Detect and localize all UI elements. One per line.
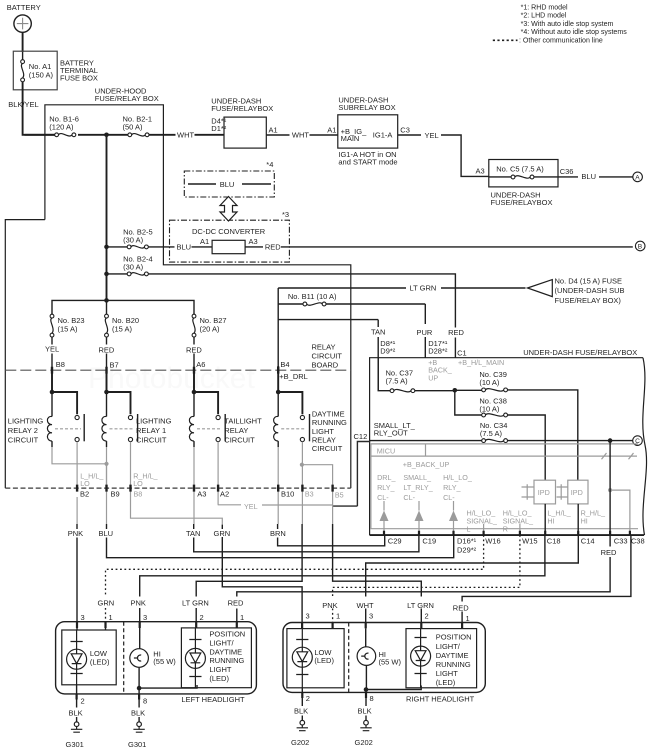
svg-text:2: 2	[425, 612, 429, 621]
svg-text:GRN: GRN	[98, 598, 115, 607]
svg-text:(7.5 A): (7.5 A)	[480, 429, 503, 438]
svg-text:(120 A): (120 A)	[49, 123, 74, 132]
svg-text:C12: C12	[354, 432, 368, 441]
svg-text:DAYTIME: DAYTIME	[312, 409, 345, 418]
svg-text:No. C5 (7.5 A): No. C5 (7.5 A)	[496, 164, 544, 173]
svg-text:TAN: TAN	[371, 328, 385, 337]
svg-text:FUSE/RELAYBOX: FUSE/RELAYBOX	[211, 104, 273, 113]
svg-text:C36: C36	[560, 167, 574, 176]
svg-text:A: A	[635, 175, 640, 182]
svg-text:BLK/YEL: BLK/YEL	[8, 100, 38, 109]
svg-text:CIRCUIT: CIRCUIT	[224, 435, 255, 444]
svg-text:A2: A2	[220, 490, 229, 499]
svg-text:PUR: PUR	[417, 328, 433, 337]
svg-text:A1: A1	[269, 126, 278, 135]
svg-text:WHT: WHT	[177, 131, 194, 140]
svg-text:1: 1	[240, 613, 244, 622]
svg-text:(LED): (LED)	[436, 678, 456, 687]
svg-text:(UNDER-DASH SUB: (UNDER-DASH SUB	[555, 286, 625, 295]
svg-text:(15 A): (15 A)	[112, 324, 133, 333]
svg-text:No. D4 (15 A) FUSE: No. D4 (15 A) FUSE	[555, 276, 623, 285]
svg-text:C3: C3	[400, 126, 410, 135]
svg-text:TAILLIGHT: TAILLIGHT	[224, 416, 262, 425]
svg-text:YEL: YEL	[425, 131, 439, 140]
svg-text:DAYTIME: DAYTIME	[436, 651, 469, 660]
svg-text:(55 W): (55 W)	[379, 658, 402, 667]
svg-text:B: B	[638, 244, 643, 251]
svg-text:C14: C14	[581, 536, 595, 545]
svg-text:SIGNAL_: SIGNAL_	[467, 517, 498, 526]
svg-text:G202: G202	[291, 738, 309, 747]
svg-text:TAN: TAN	[186, 529, 200, 538]
svg-text:RED: RED	[228, 598, 244, 607]
svg-text:DAYTIME: DAYTIME	[209, 647, 242, 656]
svg-text:LIGHT/: LIGHT/	[436, 642, 461, 651]
svg-text:RLY_: RLY_	[377, 483, 395, 492]
svg-text:IPD: IPD	[571, 488, 583, 497]
svg-text:HI: HI	[581, 517, 588, 526]
svg-text:(20 A): (20 A)	[200, 324, 221, 333]
svg-text:PNK: PNK	[131, 598, 146, 607]
svg-text:(30 A): (30 A)	[123, 262, 144, 271]
svg-text:*1: RHD model: *1: RHD model	[521, 4, 568, 11]
svg-text:LT GRN: LT GRN	[182, 598, 209, 607]
svg-text:1: 1	[336, 612, 340, 621]
svg-text:RELAY: RELAY	[312, 342, 336, 351]
svg-text:LT GRN: LT GRN	[407, 601, 434, 610]
svg-text:BLU: BLU	[99, 529, 114, 538]
svg-text:SUBRELAY BOX: SUBRELAY BOX	[338, 103, 395, 112]
svg-text:(LED): (LED)	[90, 657, 110, 666]
svg-text:MICU: MICU	[377, 447, 395, 456]
svg-text:2: 2	[306, 694, 310, 703]
svg-text:and START mode: and START mode	[338, 157, 397, 166]
svg-text:BLK: BLK	[358, 706, 372, 715]
svg-text:RUNNING: RUNNING	[312, 418, 347, 427]
svg-text:L: L	[467, 525, 471, 534]
svg-text:BRN: BRN	[270, 529, 286, 538]
svg-text:PNK: PNK	[68, 529, 83, 538]
svg-text:(55 W): (55 W)	[153, 657, 176, 666]
svg-text:8: 8	[143, 696, 147, 705]
svg-text:R: R	[503, 525, 508, 534]
svg-text:(15 A): (15 A)	[58, 324, 79, 333]
svg-text:B10: B10	[281, 490, 294, 499]
svg-text:2: 2	[200, 613, 204, 622]
svg-text:8: 8	[370, 694, 374, 703]
svg-text:BLK: BLK	[294, 706, 308, 715]
svg-text:DC-DC CONVERTER: DC-DC CONVERTER	[192, 227, 266, 236]
svg-text:RELAY 1: RELAY 1	[136, 426, 166, 435]
svg-text:B7: B7	[110, 360, 119, 369]
svg-text:B2: B2	[80, 490, 89, 499]
svg-text:D16*¹: D16*¹	[457, 536, 477, 545]
svg-text:DRL_: DRL_	[377, 473, 396, 482]
svg-text:LIGHTING: LIGHTING	[136, 416, 172, 425]
svg-text:*3: With auto idle stop system: *3: With auto idle stop system	[521, 21, 614, 28]
svg-text:CL-: CL-	[377, 493, 389, 502]
svg-text:POSITION: POSITION	[209, 630, 245, 639]
svg-text:D29*²: D29*²	[457, 545, 477, 554]
svg-text:(LED): (LED)	[314, 656, 334, 665]
svg-text:RED: RED	[265, 243, 281, 252]
svg-text:3: 3	[306, 612, 310, 621]
svg-text:W15: W15	[522, 536, 537, 545]
svg-text:WHT: WHT	[357, 601, 374, 610]
svg-text:B3: B3	[305, 490, 314, 499]
svg-text:BLU: BLU	[220, 180, 235, 189]
svg-text:1: 1	[466, 614, 470, 623]
svg-text:LO: LO	[133, 479, 143, 488]
svg-text:*2: LHD model: *2: LHD model	[521, 13, 567, 20]
svg-text:No. B11 (10 A): No. B11 (10 A)	[288, 292, 337, 301]
svg-text:RELAY: RELAY	[224, 426, 248, 435]
svg-text:LEFT HEADLIGHT: LEFT HEADLIGHT	[181, 695, 245, 704]
svg-text:B4: B4	[280, 360, 289, 369]
svg-text:LO: LO	[80, 479, 90, 488]
svg-text:B8: B8	[56, 360, 65, 369]
svg-text:A6: A6	[196, 360, 205, 369]
svg-text:A3: A3	[197, 490, 206, 499]
svg-text:C19: C19	[422, 536, 436, 545]
svg-text:YEL: YEL	[45, 345, 59, 354]
svg-text:A1: A1	[327, 126, 336, 135]
svg-text:RED: RED	[448, 328, 464, 337]
svg-text:G301: G301	[128, 740, 146, 749]
svg-text:BLK: BLK	[69, 708, 83, 717]
svg-text:+B_BACK_UP: +B_BACK_UP	[403, 460, 450, 469]
svg-text:C1: C1	[457, 349, 467, 358]
svg-text:RED: RED	[601, 548, 617, 557]
svg-text:*4: *4	[266, 160, 273, 169]
svg-text:(10 A): (10 A)	[479, 405, 500, 414]
svg-text:RED: RED	[453, 604, 469, 613]
svg-text:B8: B8	[134, 490, 143, 499]
svg-text:A3: A3	[476, 167, 485, 176]
svg-text:(50 A): (50 A)	[123, 123, 144, 132]
svg-text:FUSE/RELAYBOX: FUSE/RELAYBOX	[491, 198, 553, 207]
svg-text:CIRCUIT: CIRCUIT	[312, 352, 343, 361]
svg-text:C33: C33	[614, 536, 628, 545]
svg-text:H/L_LO_: H/L_LO_	[443, 473, 473, 482]
svg-text:D28*²: D28*²	[428, 347, 448, 356]
svg-text:CIRCUIT: CIRCUIT	[312, 444, 343, 453]
svg-text:+B_H/L_MAIN: +B_H/L_MAIN	[458, 358, 504, 367]
svg-text:WHT: WHT	[292, 130, 309, 139]
svg-text:3: 3	[369, 612, 373, 621]
svg-text:G202: G202	[355, 738, 373, 747]
svg-text:: Other communication line: : Other communication line	[519, 38, 603, 45]
svg-text:FUSE/RELAY BOX): FUSE/RELAY BOX)	[555, 296, 622, 305]
svg-text:B9: B9	[111, 490, 120, 499]
svg-text:LIGHT/: LIGHT/	[209, 638, 234, 647]
svg-text:MAIN: MAIN	[341, 134, 360, 143]
svg-text:C18: C18	[547, 536, 561, 545]
svg-text:UP: UP	[428, 373, 438, 382]
svg-text:(10 A): (10 A)	[479, 378, 500, 387]
svg-text:BLK: BLK	[131, 708, 145, 717]
svg-text:LIGHT: LIGHT	[209, 665, 232, 674]
svg-text:3: 3	[81, 613, 85, 622]
svg-text:W16: W16	[485, 536, 500, 545]
svg-text:BATTERY: BATTERY	[7, 3, 41, 12]
svg-text:RLY_: RLY_	[443, 483, 461, 492]
svg-text:RELAY 2: RELAY 2	[8, 426, 38, 435]
svg-text:C38: C38	[631, 536, 645, 545]
svg-text:+B_DRL: +B_DRL	[279, 372, 308, 381]
svg-text:B5: B5	[335, 491, 344, 500]
svg-text:RED: RED	[186, 346, 202, 355]
svg-text:LT_RLY_: LT_RLY_	[403, 483, 433, 492]
svg-text:CL-: CL-	[443, 493, 455, 502]
svg-text:A3: A3	[249, 237, 258, 246]
svg-text:CL-: CL-	[403, 493, 415, 502]
svg-text:3: 3	[143, 613, 147, 622]
svg-text:G301: G301	[66, 740, 84, 749]
svg-text:2: 2	[81, 696, 85, 705]
svg-text:1: 1	[109, 613, 113, 622]
svg-text:*4: Without auto idle stop sys: *4: Without auto idle stop systems	[521, 29, 628, 36]
svg-text:PNK: PNK	[322, 601, 337, 610]
svg-text:FUSE BOX: FUSE BOX	[60, 74, 98, 83]
svg-text:CIRCUIT: CIRCUIT	[136, 435, 167, 444]
svg-text:(150 A): (150 A)	[29, 71, 54, 80]
svg-text:LIGHTING: LIGHTING	[8, 416, 44, 425]
svg-text:RUNNING: RUNNING	[209, 656, 244, 665]
svg-text:GRN: GRN	[214, 529, 231, 538]
svg-text:IG1-A: IG1-A	[373, 130, 393, 139]
svg-text:BLU: BLU	[581, 172, 596, 181]
svg-text:BOARD: BOARD	[312, 361, 339, 370]
svg-text:LT GRN: LT GRN	[410, 284, 437, 293]
svg-text:SMALL_: SMALL_	[403, 473, 432, 482]
svg-text:IPD: IPD	[538, 488, 550, 497]
svg-text:RUNNING: RUNNING	[436, 660, 471, 669]
svg-text:(LED): (LED)	[209, 674, 229, 683]
svg-text:(7.5 A): (7.5 A)	[386, 377, 409, 386]
svg-text:BLU: BLU	[177, 243, 192, 252]
svg-text:LIGHT: LIGHT	[312, 427, 335, 436]
svg-text:RLY_OUT: RLY_OUT	[374, 429, 408, 438]
svg-text:RELAY: RELAY	[312, 436, 336, 445]
svg-text:(30 A): (30 A)	[123, 235, 144, 244]
svg-text:RIGHT HEADLIGHT: RIGHT HEADLIGHT	[406, 695, 475, 704]
svg-text:LIGHT: LIGHT	[436, 669, 459, 678]
svg-text:YEL: YEL	[244, 502, 258, 511]
svg-text:HI: HI	[547, 517, 554, 526]
svg-text:RED: RED	[99, 346, 115, 355]
svg-text:POSITION: POSITION	[436, 633, 472, 642]
svg-text:CIRCUIT: CIRCUIT	[8, 435, 39, 444]
svg-text:FUSE/RELAY BOX: FUSE/RELAY BOX	[95, 94, 159, 103]
svg-text:UNDER-DASH FUSE/RELAYBOX: UNDER-DASH FUSE/RELAYBOX	[523, 348, 637, 357]
svg-text:*3: *3	[282, 210, 289, 219]
svg-text:C29: C29	[388, 536, 402, 545]
svg-text:D9*²: D9*²	[380, 347, 396, 356]
svg-text:A1: A1	[200, 237, 209, 246]
